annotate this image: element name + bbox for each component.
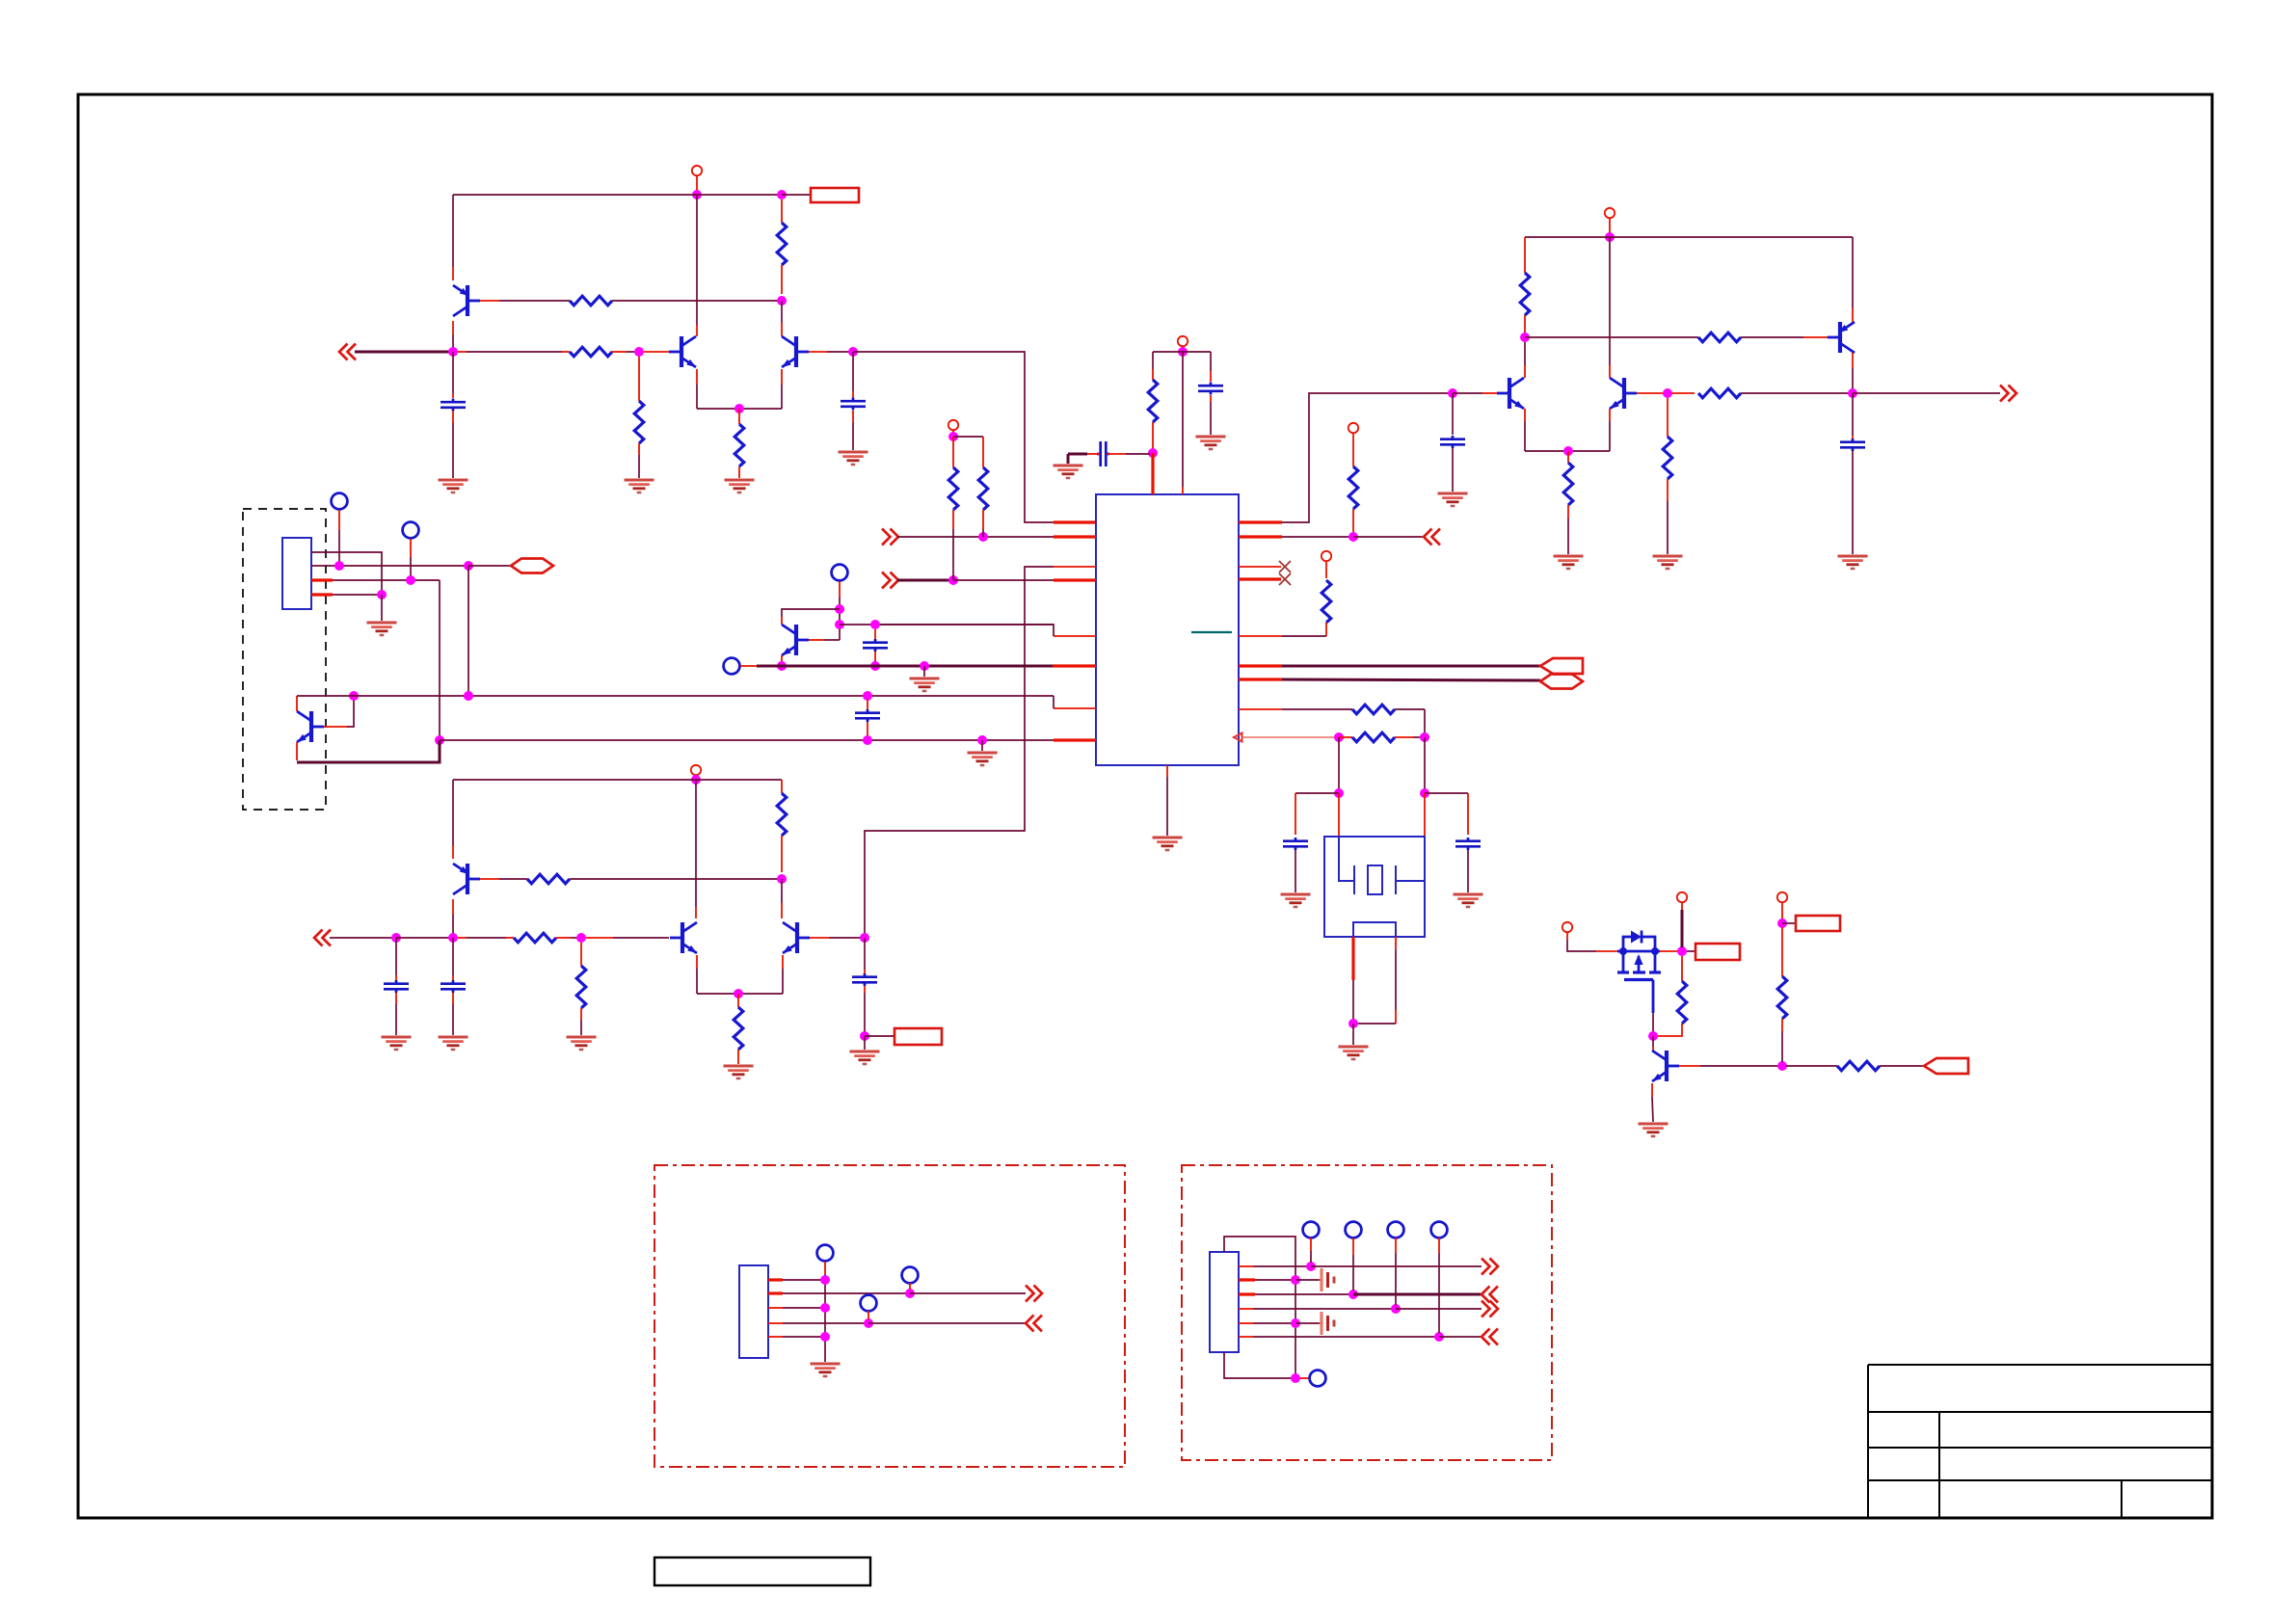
node N3 junction: [1348, 1290, 1358, 1299]
capacitor C1: [441, 401, 466, 404]
wire AMP1 left vertical: [452, 195, 454, 267]
node C2 junction: [1420, 732, 1429, 742]
node A5 junction: [634, 347, 644, 357]
wire to R3: [458, 351, 467, 353]
port IN3: [882, 572, 891, 589]
pin U1.R1 stub: [1239, 520, 1282, 523]
wire IN4b: [396, 937, 449, 939]
node C1 junction: [1334, 732, 1344, 742]
port OUT8: [1482, 1259, 1490, 1275]
ground G1: [725, 479, 755, 482]
wire R25 bottom: [1781, 1019, 1783, 1031]
wire Q13 emitter: [1651, 1083, 1653, 1097]
node F3 junction: [870, 620, 880, 629]
wire AMP3 top rail: [453, 779, 782, 781]
wire cap C9 bottom: [867, 722, 868, 736]
port IN2: [882, 529, 891, 545]
label box L2: [894, 1028, 942, 1045]
wire R1 route: [1282, 393, 1449, 522]
wire J2 bus: [824, 1274, 826, 1362]
wire J3 pin5: [1239, 1322, 1253, 1324]
wire R17 to out: [1741, 392, 1849, 394]
wire R24 to port: [1880, 1065, 1924, 1067]
capacitor C8: [1840, 440, 1865, 443]
wire J1 pin2: [311, 565, 468, 567]
pin U1.L3 stub: [1054, 566, 1096, 568]
wire xtal left vert: [1338, 737, 1340, 789]
node M1 junction: [820, 1275, 830, 1285]
crystal Y1 box: [1324, 837, 1425, 937]
resistor R8: [978, 467, 988, 510]
power symbol P5: [1322, 551, 1331, 561]
wire pin4 to port: [868, 1322, 1026, 1324]
capacitor C4: [1198, 385, 1223, 387]
wire R9 top: [1352, 433, 1354, 466]
wire AMP1 top rail: [453, 194, 782, 196]
wire J3 pin4: [1239, 1308, 1253, 1310]
node B4 junction: [1348, 532, 1358, 542]
node B3 junction: [948, 432, 958, 441]
ground G7: [1153, 837, 1183, 839]
port IN1 (input): [339, 344, 348, 360]
power symbol P6: [1605, 208, 1615, 218]
ground G12: [1653, 555, 1683, 558]
node C3 junction: [1334, 788, 1344, 798]
wire top rail: [1153, 351, 1211, 353]
port IN6: [1482, 1287, 1490, 1303]
node D2 junction: [1520, 333, 1530, 342]
wire cap C12 top: [452, 938, 454, 975]
wire R16 to ground: [1667, 479, 1669, 501]
wire pin4 to port: [1396, 1308, 1482, 1310]
wire IN3 to pin: [953, 579, 1054, 581]
wire R25 top: [1781, 927, 1783, 976]
wire to R4: [738, 409, 740, 424]
node H3 junction: [391, 933, 401, 943]
no-connect X1: [1279, 561, 1291, 572]
node F2 junction: [835, 620, 844, 629]
wire Q12 drain to node: [1660, 950, 1678, 952]
wire R5 line: [1282, 635, 1326, 637]
wire Q10 base stub: [586, 937, 613, 939]
wire bus to ground: [824, 1361, 826, 1363]
wire TP10 stub: [1352, 1237, 1354, 1255]
wire R12 right: [1395, 736, 1413, 738]
wire to TP8: [1300, 1377, 1309, 1379]
wire bus OUT3: [1282, 665, 1540, 668]
wire Q8 base: [809, 639, 824, 641]
wire J3 pin1: [1239, 1265, 1253, 1267]
wire Q6 base: [1637, 392, 1664, 394]
wire R2 to Q3 collector: [781, 301, 783, 323]
port IN4 (input): [314, 930, 323, 946]
wire J3 pin2: [1239, 1278, 1255, 1281]
wire cap C1 top: [452, 352, 454, 393]
wire J1 pin3: [311, 578, 333, 581]
power symbol P9: [1677, 892, 1687, 902]
wire R10 bottom: [1325, 623, 1327, 636]
wire to label L2: [865, 1035, 894, 1037]
wire cap C9 top: [867, 700, 868, 709]
node A2 junction: [777, 190, 787, 200]
wire R19 to Q11 collector: [781, 879, 783, 903]
ground G23: [1639, 1123, 1669, 1126]
wire pin6 to port: [1439, 1336, 1482, 1338]
connector J2: [739, 1265, 768, 1358]
node A1 junction: [692, 190, 702, 200]
wire xtal pin1: [1338, 793, 1340, 837]
port OUT4: [1540, 675, 1583, 689]
pin U1.L7 stub: [1054, 707, 1096, 709]
wire IN1: [355, 351, 453, 354]
wire R5 to ground: [638, 443, 640, 455]
testpoint TP11: [1388, 1222, 1404, 1238]
power symbol P10: [1777, 892, 1787, 902]
ground G5: [1054, 465, 1083, 467]
node E1 junction: [334, 561, 344, 571]
wire Q11 base: [810, 937, 829, 939]
ground G9: [1454, 893, 1483, 896]
dashed module boundary: [243, 509, 326, 810]
wire to R21: [737, 994, 739, 1007]
transistor Q9 (PNP): [466, 864, 469, 894]
wire TP4 stub: [740, 665, 757, 667]
ground G3: [625, 479, 654, 482]
node E2 junction: [406, 575, 415, 585]
wire TP11 stub: [1395, 1237, 1397, 1253]
wire R7 top: [952, 437, 954, 467]
wire C6 arm: [1425, 792, 1468, 794]
wire net768: [440, 739, 1054, 741]
wire C11 to ground: [395, 993, 397, 1004]
capacitor C7: [1440, 438, 1465, 440]
resistor R21: [734, 1007, 743, 1050]
wire to ground G16: [981, 740, 983, 751]
node B2 junction: [948, 575, 958, 585]
testpoint TP3: [832, 565, 848, 581]
ground G14: [1838, 555, 1868, 558]
resistor R1: [570, 296, 612, 306]
wire base line: [1525, 336, 1698, 338]
node N5 junction: [1291, 1318, 1300, 1328]
node E7 junction: [349, 691, 359, 701]
wire TP6 stub: [909, 1283, 911, 1290]
port OUT7: [1026, 1286, 1034, 1302]
capacitor C13: [852, 975, 877, 978]
node C4 junction: [1420, 788, 1429, 798]
wire bus OUT4: [1282, 679, 1540, 680]
ground G11: [1554, 555, 1584, 558]
wire pin3 to port: [1353, 1293, 1482, 1296]
resistor R17: [1698, 388, 1741, 398]
node K1 junction: [1648, 1031, 1658, 1041]
wire R23 bottom: [1681, 1024, 1683, 1032]
wire cap C8 top: [1852, 393, 1854, 436]
wire J3 pin6: [1239, 1336, 1253, 1338]
wire R21 to ground: [737, 1050, 739, 1064]
wire R16 top: [1667, 398, 1669, 437]
wire cap C10 top: [874, 629, 876, 639]
ground G19: [382, 1036, 412, 1039]
node M2 junction: [905, 1289, 915, 1298]
wire cap C7 top: [1452, 393, 1454, 435]
wire R5 top: [638, 357, 640, 401]
transistor Q12 (P-MOSFET): [1617, 950, 1660, 953]
transistor Q3 (NPN): [794, 336, 798, 367]
node A4 junction: [448, 347, 458, 357]
resistor R15: [1563, 463, 1573, 505]
resistor R14: [1698, 333, 1741, 342]
wire to label L4: [1782, 922, 1796, 924]
capacitor C12: [441, 982, 466, 985]
wire Q2 base stub: [644, 351, 669, 353]
wire J2 pin2: [768, 1291, 783, 1294]
node K3 junction: [1777, 1061, 1787, 1071]
wire Q7 collector: [296, 742, 298, 760]
resistor R6: [1148, 380, 1158, 422]
testpoint TP8: [1310, 1370, 1326, 1387]
wire R11 right: [1395, 708, 1425, 710]
node D1 junction: [1605, 232, 1615, 242]
wire Q7 base: [324, 726, 347, 728]
wire U1 pin stub top: [1151, 453, 1154, 494]
wire pin2 vertical: [467, 566, 469, 692]
wire C2 to ground: [852, 411, 854, 422]
wire Q1 base stub: [480, 300, 499, 302]
node M4 junction: [864, 1318, 873, 1328]
label box L4: [1796, 916, 1840, 931]
capacitor C11: [384, 982, 409, 985]
wire emitter join3: [697, 993, 783, 995]
node K4 junction: [1777, 918, 1787, 928]
wire cap C13 top: [864, 938, 866, 970]
node H1 junction: [691, 775, 701, 785]
wire J2 pin4: [768, 1322, 783, 1324]
wire to R24: [1786, 1065, 1837, 1067]
wire Q13 base: [1679, 1065, 1700, 1067]
wire TP12 stub: [1438, 1237, 1440, 1253]
pin U1.L4 stub: [1054, 578, 1096, 581]
wire R1 to node: [612, 300, 782, 302]
wire Q7 collector return: [297, 740, 440, 762]
wire R20 to node H5: [556, 937, 571, 939]
node U1 pin junction: [1148, 448, 1158, 458]
node D4 junction: [1663, 388, 1672, 398]
testpoint TP4: [724, 658, 740, 675]
wire C5 arm: [1295, 792, 1339, 794]
node B1 junction: [978, 532, 988, 542]
resistor R23: [1677, 981, 1687, 1024]
wire IN3 line: [897, 579, 953, 582]
wire AMP1 center vertical: [696, 195, 698, 325]
wire AMP3 left vertical: [452, 780, 454, 845]
wire Q2 emitter: [696, 369, 698, 385]
wire R2 line: [1282, 536, 1349, 538]
wire to label: [782, 194, 811, 196]
node E4 junction: [464, 561, 473, 571]
wire to port OUT5: [468, 565, 511, 567]
wire AMP3 center vertical: [695, 780, 697, 907]
wire C3 right: [1107, 453, 1126, 455]
wire J3 shell bottom: [1224, 1352, 1295, 1378]
port OUT2: [1424, 529, 1432, 545]
node N2 junction: [1291, 1275, 1300, 1285]
wire J3 shell top: [1224, 1237, 1295, 1378]
port OUT3: [1540, 658, 1583, 674]
wire L5 route: [879, 625, 1054, 636]
node N0 junction: [1291, 1373, 1300, 1383]
power symbol P8: [1562, 922, 1572, 932]
capacitor C2: [841, 400, 866, 403]
wire P9 down: [1681, 910, 1684, 947]
wire Q9 base stub: [480, 878, 499, 880]
node F5 junction: [777, 661, 787, 671]
wire R15 top: [1567, 451, 1569, 463]
port IN5: [1026, 1316, 1034, 1332]
ground G22: [850, 1051, 880, 1053]
transistor Q1 (PNP): [466, 285, 469, 316]
IC U1 internal mark: [1191, 631, 1232, 633]
transistor Q13 (NPN): [1665, 1051, 1669, 1081]
node N6 junction: [1434, 1332, 1444, 1342]
IC U1 body: [1096, 494, 1239, 765]
wire Q1 collector: [452, 321, 454, 334]
node N1 junction: [1306, 1262, 1316, 1271]
resistor R13: [1520, 273, 1530, 315]
resistor R24: [1837, 1061, 1880, 1071]
ground G2: [439, 479, 468, 482]
wire IN4: [330, 937, 392, 939]
node U1 top junction: [1178, 347, 1188, 357]
wire cap C2 top: [852, 352, 854, 391]
resistor R10: [1322, 580, 1331, 623]
wire TP3 stub: [839, 581, 841, 598]
wire pin4 to ground: [381, 595, 383, 621]
transistor Q2 (NPN): [680, 336, 683, 367]
wire Q12 gate down: [1652, 1013, 1654, 1032]
wire cap C4 branch: [1210, 352, 1212, 371]
wire to R11: [1282, 708, 1352, 710]
port IN7: [1482, 1329, 1490, 1345]
pin U1.R5 stub: [1239, 635, 1282, 637]
resistor R7: [948, 467, 958, 510]
pin U1.L8 stub: [1054, 738, 1096, 741]
resistor R4: [734, 424, 744, 466]
node E6 junction: [435, 735, 444, 745]
wire Q11 emitter: [782, 955, 784, 969]
wire L7 step: [1053, 696, 1055, 708]
testpoint TP10: [1346, 1222, 1362, 1238]
wire pin2 to chassis: [1295, 1279, 1319, 1281]
wire emitter join: [697, 408, 782, 410]
testpoint TP12: [1431, 1222, 1448, 1238]
wire R3 to node A5: [611, 351, 627, 353]
wire Q6 collector: [1609, 237, 1611, 365]
wire Q10 emitter: [696, 955, 698, 969]
wire P8 to Q12 gate net: [1567, 940, 1596, 951]
pin U1.L2 stub: [1054, 535, 1096, 538]
wire R9 bottom: [1352, 509, 1354, 532]
testpoint TP1: [332, 493, 348, 510]
wire Q8 collector: [781, 655, 783, 664]
resistor R18: [527, 874, 570, 884]
port OUT1: [2000, 386, 2009, 402]
ground G13: [1438, 492, 1468, 495]
node H5 junction: [576, 933, 586, 943]
transistor Q5 (NPN): [1508, 378, 1511, 409]
wire TP7 stub: [868, 1311, 869, 1319]
pin U1.R6 stub: [1239, 664, 1282, 667]
node E8 junction: [464, 691, 473, 701]
power symbol P1: [692, 166, 702, 175]
wire TP5 stub: [824, 1262, 826, 1274]
testpoint TP9: [1303, 1222, 1320, 1238]
wire U1 GND pin: [1166, 765, 1168, 777]
wire xtal right vert: [1424, 737, 1426, 789]
wire to ground G22: [864, 1036, 866, 1050]
connector J3: [1210, 1252, 1239, 1352]
wire R15 to ground: [1567, 505, 1569, 519]
node M5 junction: [820, 1332, 830, 1342]
no-connect X2: [1279, 573, 1291, 585]
wire R6 bottom: [1152, 422, 1154, 449]
testpoint TP7: [861, 1295, 877, 1312]
wire Q3 emitter: [781, 369, 783, 385]
wire L3 route: [865, 567, 1054, 934]
testpoint TP2: [403, 522, 419, 539]
pin U1.L5 stub: [1054, 635, 1096, 637]
connector J1: [282, 538, 311, 609]
pin U1.R7 stub: [1239, 678, 1282, 680]
wire J2 pin3: [768, 1307, 783, 1309]
resistor R9: [1348, 466, 1358, 509]
wire Q4 collector: [1852, 353, 1854, 368]
wire R13 top: [1524, 237, 1526, 273]
wire R14 to Q4: [1741, 336, 1803, 338]
wire R8 bottom: [982, 510, 984, 529]
wire R7 bottom: [952, 510, 954, 529]
transistor Q4 (PNP): [1838, 322, 1842, 353]
wire AMP2 out: [1853, 392, 2000, 394]
wire TP2 stub: [410, 539, 412, 557]
wire case pin right: [1395, 937, 1397, 949]
wire pin3 vertical: [439, 580, 441, 736]
wire R4 to ground: [738, 466, 740, 478]
pin U1.R3 stub: [1239, 566, 1281, 568]
wire pin2 to port: [910, 1292, 1026, 1294]
pin U1.L6 stub: [1053, 664, 1096, 667]
node A3 junction: [777, 296, 787, 306]
wire bus net691: [757, 665, 1053, 668]
node N4 junction: [1391, 1304, 1401, 1314]
pin U1.R2 stub: [1239, 535, 1282, 538]
wire U1 VCC pin: [1182, 352, 1184, 487]
node D3 junction: [1448, 388, 1457, 398]
wire pin5 to chassis: [1295, 1322, 1319, 1324]
node K2 junction: [1677, 946, 1687, 956]
node A6 junction: [734, 404, 744, 413]
resistor R2: [781, 200, 783, 223]
wire R9 pin line: [1242, 736, 1335, 738]
crystal Y1 symbol: [1339, 837, 1354, 881]
power symbol P4: [1348, 423, 1358, 433]
ground G21: [567, 1036, 597, 1039]
resistor R20: [514, 933, 556, 943]
wire R22 to ground: [580, 1008, 582, 1020]
power symbol P3: [948, 420, 958, 430]
port OUT6: [1924, 1058, 1968, 1074]
wire Q7 emitter: [296, 696, 298, 711]
